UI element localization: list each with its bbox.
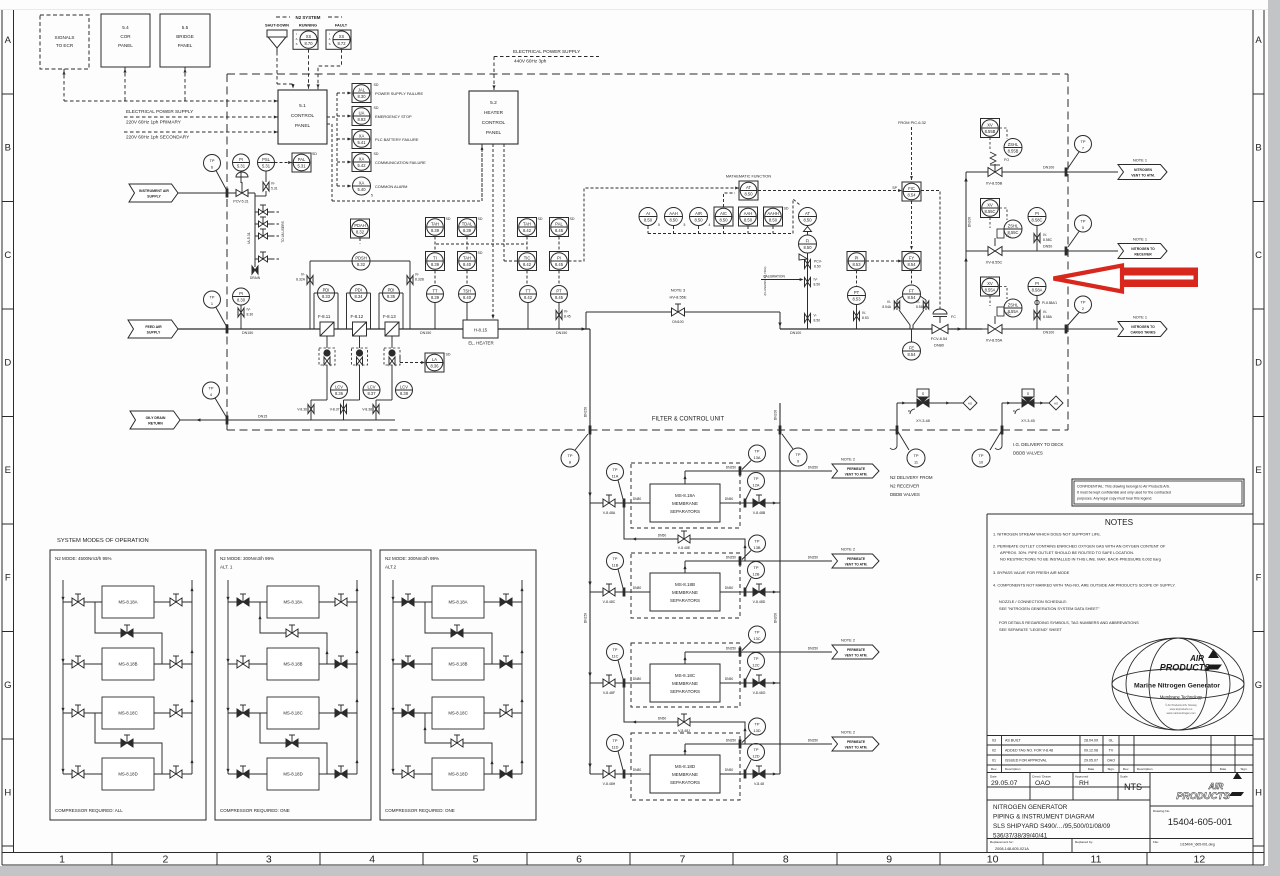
alarm PAL 5.31 (292, 153, 311, 172)
svg-text:V-8.48D: V-8.48D (753, 600, 766, 604)
test point TP12C (748, 653, 765, 670)
svg-text:TT: TT (525, 289, 531, 294)
svg-text:28.04.09: 28.04.09 (1084, 739, 1098, 743)
svg-text:5.31: 5.31 (237, 164, 246, 169)
svg-text:VENT TO ATM.: VENT TO ATM. (845, 473, 868, 477)
separator MS-8.18D (650, 755, 720, 793)
svg-text:NOZZLE / CONNECTION SCHEDULE:: NOZZLE / CONNECTION SCHEDULE: (999, 599, 1067, 604)
svg-text:NITROGEN: NITROGEN (1134, 168, 1152, 172)
svg-text:Scale: Scale (1120, 775, 1128, 779)
membrane group MS-8.18D dashed box (631, 733, 740, 800)
svg-text:3: 3 (266, 854, 272, 866)
svg-text:MS-8.18A: MS-8.18A (283, 600, 302, 605)
svg-text:FE: FE (909, 346, 915, 351)
svg-text:N2 MODE: 300Nm3/h 99%: N2 MODE: 300Nm3/h 99% (385, 556, 439, 561)
svg-text:File:: File: (1153, 840, 1159, 844)
svg-text:DN250: DN250 (808, 556, 818, 560)
mode row MS-8.18C (228, 712, 267, 714)
svg-text:PT: PT (854, 290, 860, 295)
wire bypass V-8.48E (624, 503, 745, 561)
svg-text:Sign.: Sign. (1240, 767, 1247, 771)
zone row dividers (2, 93, 14, 95)
frame border lines (1, 10, 3, 865)
svg-text:8.50: 8.50 (804, 245, 813, 250)
svg-text:DN50: DN50 (1043, 245, 1052, 249)
svg-text:Replaced by:: Replaced by: (1075, 840, 1093, 844)
valve XY-3.48 assembly (897, 402, 963, 404)
svg-text:MS-8.18A: MS-8.18A (675, 493, 695, 498)
svg-text:© Air Products A/S, Norway: © Air Products A/S, Norway (1165, 703, 1197, 707)
svg-text:XA: XA (359, 181, 365, 186)
svg-text:V-8.48G: V-8.48G (753, 691, 766, 695)
svg-text:2: 2 (162, 854, 168, 866)
svg-text:8.42: 8.42 (523, 262, 532, 267)
valve FCV-8.54 with FC actuator (933, 309, 947, 314)
svg-text:SD: SD (784, 207, 789, 211)
svg-text:DBDB VALVES: DBDB VALVES (890, 492, 920, 497)
svg-text:PAL: PAL (298, 157, 306, 162)
boundary dashed box air products scope (227, 73, 1068, 75)
instrument PI 8.45 (550, 252, 569, 271)
svg-text:8.55C: 8.55C (1008, 230, 1019, 235)
svg-text:8.50: 8.50 (814, 265, 821, 269)
svg-text:F-8.11: F-8.11 (318, 314, 331, 319)
instrument PT 8.53 (856, 271, 858, 287)
svg-text:TP: TP (755, 630, 760, 635)
svg-text:DN50: DN50 (725, 586, 734, 590)
svg-text:13A: 13A (754, 455, 761, 460)
svg-text:SHUT-DOWN: SHUT-DOWN (265, 23, 289, 28)
svg-text:ZSHL: ZSHL (1008, 224, 1019, 229)
svg-text:VENT TO ATM.: VENT TO ATM. (845, 746, 868, 750)
svg-text:V-8.48: V-8.48 (754, 782, 764, 786)
svg-text:PI: PI (1035, 281, 1039, 286)
svg-text:8.54: 8.54 (908, 352, 917, 357)
mode cross connection A-B (95, 602, 162, 664)
svg-text:8.54A: 8.54A (882, 305, 891, 309)
filter F-8.13 drain trap (391, 336, 393, 348)
svg-text:8.36: 8.36 (431, 364, 440, 369)
flag INSTRUMENT AIR SUPPLY (129, 184, 178, 202)
svg-text:8.72: 8.72 (338, 41, 347, 46)
svg-text:Date: Date (1220, 767, 1227, 771)
svg-text:DN250: DN250 (726, 739, 736, 743)
svg-text:NITROGEN TO: NITROGEN TO (1131, 247, 1155, 251)
svg-text:DN15: DN15 (258, 415, 267, 419)
instrument AI 8.50 (639, 208, 657, 226)
test point TP13D (749, 718, 766, 735)
svg-text:HEATER: HEATER (484, 110, 504, 116)
title block bottom row (987, 838, 1253, 840)
svg-text:ZSHL: ZSHL (1008, 142, 1019, 147)
mode box at x=215 (215, 550, 371, 820)
svg-text:IA-5.31: IA-5.31 (247, 232, 251, 244)
svg-text:01: 01 (992, 759, 996, 763)
svg-text:ZSHL: ZSHL (1008, 303, 1019, 308)
svg-text:DN250: DN250 (808, 647, 818, 651)
svg-text:03: 03 (992, 739, 996, 743)
mode cross connection C-D (95, 713, 162, 774)
svg-text:OAO: OAO (1107, 759, 1115, 763)
valve LCV 8.38 (396, 382, 413, 399)
wire instrument air line (178, 192, 236, 194)
svg-text:SEPARATORS: SEPARATORS (670, 509, 700, 514)
svg-text:11B: 11B (612, 562, 619, 567)
wire feed branch B (590, 591, 650, 593)
svg-text:DRAIN: DRAIN (250, 276, 261, 280)
svg-text:F: F (1256, 573, 1262, 584)
wire FIC to FCV dashed (921, 191, 940, 310)
svg-text:DN250: DN250 (726, 466, 736, 470)
instrument PSL 5.31 (258, 154, 275, 171)
svg-text:PI: PI (557, 256, 561, 261)
valve IV-8.58C (1036, 226, 1038, 252)
instrument AAH 8.50 square (739, 207, 758, 226)
branch nitrogen to receiver line (966, 250, 1118, 252)
svg-text:8.53: 8.53 (862, 316, 869, 320)
wire permeate line D (684, 744, 686, 755)
svg-text:12: 12 (1194, 854, 1206, 866)
svg-text:8.30: 8.30 (358, 94, 367, 99)
svg-text:8.30: 8.30 (247, 313, 254, 317)
mode box at x=380 (380, 550, 536, 820)
svg-text:A: A (329, 37, 331, 41)
valve IV-8.32B (407, 276, 413, 285)
svg-text:8.34: 8.34 (355, 294, 364, 299)
svg-text:8.50: 8.50 (804, 218, 813, 223)
svg-text:ELECTRICAL POWER SUPPLY: ELECTRICAL POWER SUPPLY (126, 109, 194, 114)
instrument TSH 8.40 (459, 286, 476, 303)
svg-text:8.58C: 8.58C (1032, 218, 1043, 223)
svg-text:V-8.48B: V-8.48B (753, 511, 766, 515)
instrument PI 8.58C (1028, 208, 1046, 226)
page edge gray strip right (1268, 0, 1280, 876)
wire FIC to FY dashed (911, 201, 913, 251)
svg-text:VENT TO ATM.: VENT TO ATM. (845, 654, 868, 658)
logo globe Air Products (1112, 638, 1244, 730)
svg-text:H-8.15: H-8.15 (474, 328, 488, 333)
svg-text:PI: PI (1035, 211, 1039, 216)
svg-text:GL: GL (1109, 739, 1114, 743)
svg-text:8.32: 8.32 (357, 262, 366, 267)
separator MS-8.18C (650, 664, 720, 702)
svg-text:11A: 11A (612, 473, 619, 478)
svg-text:8.50: 8.50 (644, 218, 653, 223)
svg-text:220V 60Hz 1ph SECONDARY: 220V 60Hz 1ph SECONDARY (126, 135, 190, 140)
svg-text:FAULT: FAULT (335, 23, 348, 28)
wire feed air main line (178, 328, 465, 330)
svg-text:EL. HEATER: EL. HEATER (468, 341, 493, 346)
svg-text:S: S (296, 42, 298, 46)
svg-text:SP: SP (892, 186, 897, 190)
svg-text:MS-8.18A: MS-8.18A (448, 600, 467, 605)
svg-text:TI: TI (433, 256, 437, 261)
svg-text:3. BYPASS VALVE FOR FRESH AIR: 3. BYPASS VALVE FOR FRESH AIR MODE (993, 570, 1070, 575)
svg-text:ALT. 1: ALT. 1 (220, 565, 233, 570)
svg-text:H: H (1255, 788, 1262, 799)
svg-text:COMMON ALARM: COMMON ALARM (375, 184, 407, 189)
svg-text:www.airproducts.no: www.airproducts.no (1170, 707, 1193, 711)
svg-text:E: E (1255, 465, 1261, 476)
wire XY-3.48 to header (896, 403, 898, 430)
funnel shut-down symbol (267, 30, 287, 37)
wire product riser to branches (965, 172, 967, 329)
svg-text:IV-: IV- (415, 273, 419, 277)
svg-text:N2 MODE: 4500Nm3/h 95%: N2 MODE: 4500Nm3/h 95% (55, 556, 112, 561)
svg-text:DN150: DN150 (584, 407, 588, 417)
wire permeate line B (684, 561, 686, 573)
svg-text:AIR: AIR (695, 211, 702, 216)
svg-text:MS-8.18D: MS-8.18D (675, 764, 696, 769)
branch nitrogen vent to atm line (966, 171, 1118, 173)
wire membrane product riser DN100 (779, 403, 781, 774)
wire PSL 5.31 tap (265, 171, 267, 182)
separator MS-8.18A (650, 484, 720, 522)
svg-text:Drawing No.: Drawing No. (1153, 809, 1170, 813)
svg-text:NOTE 1: NOTE 1 (1133, 315, 1147, 320)
wire 220V secondary dashed (124, 131, 278, 133)
svg-text:SD: SD (446, 353, 451, 357)
svg-text:COMPRESSOR REQUIRED: ONE: COMPRESSOR REQUIRED: ONE (220, 808, 290, 813)
svg-text:IV-: IV- (301, 273, 305, 277)
svg-text:8.45: 8.45 (555, 228, 564, 233)
svg-text:IV-: IV- (887, 300, 891, 304)
wire instrument taps to feed line (434, 303, 436, 330)
svg-text:FIC: FIC (908, 186, 915, 191)
regulator PCV-5.31 (236, 190, 248, 197)
test point TP8 (561, 449, 579, 467)
svg-text:8.50: 8.50 (814, 283, 821, 287)
mode row MS-8.18A (63, 601, 102, 603)
svg-text:ELECTRICAL POWER SUPPLY: ELECTRICAL POWER SUPPLY (513, 49, 581, 54)
hook and TP11 (890, 430, 897, 449)
confidential legend box (1072, 479, 1244, 506)
branch nitrogen to cargo tanks line (982, 328, 1118, 330)
valve V-8.48H (603, 770, 615, 778)
svg-text:UA: UA (359, 111, 365, 116)
mode cross connection C-D (425, 713, 492, 774)
test point TP7 (1075, 136, 1092, 153)
svg-text:DN80: DN80 (633, 677, 642, 681)
wire product branch D (720, 773, 780, 775)
valve HV-8.55E (672, 308, 685, 316)
svg-text:8.54: 8.54 (908, 193, 917, 198)
svg-text:MS-8.18D: MS-8.18D (118, 772, 137, 777)
svg-text:TDAL: TDAL (462, 222, 473, 227)
valve PI-8.58A/1 (1036, 296, 1038, 330)
valve V-8.38 (373, 405, 379, 414)
svg-text:8.40: 8.40 (463, 262, 472, 267)
svg-text:8.55A: 8.55A (1008, 309, 1019, 314)
wire PI 8.45 to math AT dashed (569, 188, 740, 261)
svg-text:MS-8.18B: MS-8.18B (118, 662, 137, 667)
svg-text:OILY DRAIN: OILY DRAIN (146, 416, 166, 420)
svg-text:DN250: DN250 (726, 556, 736, 560)
svg-text:10: 10 (987, 854, 999, 866)
svg-text:VENT TO ATM.: VENT TO ATM. (845, 563, 868, 567)
svg-text:XV: XV (987, 123, 993, 128)
svg-text:TO I/A USERS: TO I/A USERS (281, 220, 285, 242)
svg-text:8.39: 8.39 (431, 295, 440, 300)
svg-text:D: D (4, 358, 11, 369)
svg-text:SEPARATORS: SEPARATORS (670, 689, 700, 694)
filter F-8.13 assembly (378, 293, 380, 329)
svg-text:POWER SUPPLY FAILURE: POWER SUPPLY FAILURE (375, 91, 423, 96)
wire temperature alarm bus dashed (436, 243, 527, 245)
svg-text:PRODUCTS: PRODUCTS (1176, 791, 1230, 802)
svg-text:AI: AI (646, 211, 650, 216)
svg-text:DN100: DN100 (1043, 166, 1054, 170)
svg-text:11: 11 (1091, 854, 1102, 866)
svg-text:PAL: PAL (555, 222, 563, 227)
svg-text:TP: TP (754, 747, 759, 752)
svg-text:C: C (4, 250, 11, 261)
svg-text:9: 9 (797, 458, 799, 463)
svg-text:8.50: 8.50 (814, 319, 821, 323)
svg-text:8.50: 8.50 (720, 218, 729, 223)
svg-text:PDI: PDI (388, 288, 395, 293)
svg-text:SEPARATORS: SEPARATORS (670, 598, 700, 603)
svg-text:purposes. Any legal copy must: purposes. Any legal copy must bear this … (1077, 497, 1152, 501)
svg-text:PSL: PSL (262, 157, 270, 162)
svg-text:JAL: JAL (358, 88, 366, 93)
svg-text:8.54: 8.54 (908, 295, 917, 300)
instrument ZSHL 8.55C (1004, 220, 1022, 238)
svg-text:CONTROL: CONTROL (291, 113, 315, 119)
svg-text:MS-8.18D: MS-8.18D (448, 772, 467, 777)
svg-text:6: 6 (576, 854, 582, 866)
svg-text:DN50: DN50 (658, 717, 667, 721)
svg-text:11: 11 (914, 459, 918, 464)
svg-text:5: 5 (658, 223, 660, 227)
svg-text:SD: SD (374, 83, 379, 87)
test point TP11D (607, 735, 624, 752)
wire feed branch A (590, 502, 650, 504)
svg-text:PERMEATE: PERMEATE (847, 557, 866, 561)
test point TP11A (607, 464, 624, 481)
svg-text:APPROX. 30%. PIPE OUTLET SHOUL: APPROX. 30%. PIPE OUTLET SHOULD BE ROUTE… (1000, 550, 1134, 555)
svg-text:N2 SYSTEM: N2 SYSTEM (296, 15, 321, 20)
svg-text:8: 8 (783, 854, 789, 866)
svg-text:8.45: 8.45 (555, 262, 564, 267)
svg-text:DN250: DN250 (808, 466, 818, 470)
svg-text:8.40: 8.40 (463, 295, 472, 300)
IA branch valves to users (255, 211, 272, 213)
svg-text:PDI: PDI (323, 288, 330, 293)
svg-text:COR: COR (120, 34, 131, 39)
wire XS 8.70 to control panel dashed (308, 49, 310, 90)
svg-text:A: A (1255, 35, 1262, 46)
svg-text:TSH: TSH (463, 289, 471, 294)
svg-text:SEPARATORS: SEPARATORS (670, 780, 700, 785)
wire bypass V-8.48J (624, 683, 745, 744)
svg-text:29.05.07: 29.05.07 (991, 780, 1018, 787)
svg-text:SYSTEM MODES OF OPERATION: SYSTEM MODES OF OPERATION (57, 538, 149, 544)
svg-text:Membrane Technology: Membrane Technology (1160, 695, 1203, 700)
svg-text:Description: Description (1005, 767, 1021, 771)
svg-text:ADDED TAG NO. FOR V-8.48: ADDED TAG NO. FOR V-8.48 (1005, 749, 1053, 753)
svg-text:XV: XV (987, 281, 993, 286)
test point TP13A (749, 445, 766, 462)
instrument AIC 8.50 (714, 207, 733, 226)
svg-text:SD: SD (570, 217, 575, 221)
wire PDI header (310, 260, 352, 262)
svg-text:F-8.12: F-8.12 (351, 314, 364, 319)
svg-text:XY-3.45: XY-3.45 (1021, 418, 1035, 423)
mode row MS-8.18D (63, 773, 102, 775)
svg-text:LCV: LCV (400, 385, 408, 390)
svg-text:5.42: 5.42 (358, 163, 367, 168)
mode row MS-8.18B (63, 663, 102, 665)
svg-text:TP: TP (1081, 139, 1086, 144)
svg-text:NOTES: NOTES (1105, 518, 1134, 527)
test point TP6 (204, 155, 221, 172)
svg-text:PERMEATE: PERMEATE (847, 648, 866, 652)
mode row MS-8.18C (63, 712, 102, 714)
svg-text:LCV: LCV (368, 385, 376, 390)
svg-text:PDI: PDI (355, 288, 362, 293)
valve IV-8.50 (805, 278, 811, 287)
svg-text:DN250: DN250 (726, 647, 736, 651)
test point TP13C (749, 626, 766, 643)
panel 5.5 BRIDGE PANEL (160, 14, 210, 67)
svg-text:ISSUED FOR APPROVAL: ISSUED FOR APPROVAL (1005, 759, 1047, 763)
wire product line from membranes (780, 328, 932, 330)
svg-text:Sign.: Sign. (1107, 767, 1114, 771)
valve LCV 8.36 (331, 382, 348, 399)
mode box headers and verticals (227, 580, 229, 774)
svg-text:(FLUSHING 1/1 NOx): (FLUSHING 1/1 NOx) (763, 266, 767, 295)
valve IV-8.58A (1034, 311, 1040, 320)
svg-text:8.93: 8.93 (358, 117, 367, 122)
svg-text:8.55A: 8.55A (985, 288, 996, 293)
svg-text:RH: RH (1079, 780, 1089, 787)
svg-text:V-8.48H: V-8.48H (603, 782, 616, 786)
svg-text:5: 5 (473, 854, 479, 866)
instrument PAL 8.45 SD (550, 218, 569, 237)
instrument PDSH 8.32 (352, 252, 370, 270)
svg-text:5.41: 5.41 (358, 140, 367, 145)
svg-text:DN50: DN50 (725, 497, 734, 501)
wire PI 5.31 tap (240, 171, 242, 183)
svg-text:SEE SEPARATE "LEGEND" SHEET: SEE SEPARATE "LEGEND" SHEET (999, 627, 1063, 632)
svg-text:1\15404\_\605-001.dwg: 1\15404\_\605-001.dwg (1180, 843, 1215, 847)
svg-text:EMERGENCY STOP: EMERGENCY STOP (375, 114, 412, 119)
svg-text:FY: FY (909, 256, 915, 261)
svg-text:COMPRESSOR REQUIRED: ALL: COMPRESSOR REQUIRED: ALL (55, 808, 123, 813)
instrument TDAL 8.39 SD (458, 218, 477, 237)
svg-text:DBDB VALVES: DBDB VALVES (1013, 451, 1043, 456)
svg-text:Approved: Approved (1075, 775, 1089, 779)
svg-text:12A: 12A (753, 482, 760, 487)
valve IV-8.53 (856, 305, 858, 330)
svg-text:440V 60Hz 3ph: 440V 60Hz 3ph (514, 59, 547, 64)
svg-text:DN150: DN150 (584, 613, 588, 623)
test point TP9 (789, 448, 807, 466)
valve V-8.48D (753, 588, 765, 596)
svg-text:TP: TP (209, 386, 214, 391)
svg-text:TP: TP (796, 452, 801, 457)
svg-text:V-8.48J: V-8.48J (678, 729, 690, 733)
svg-text:IV-: IV- (564, 310, 568, 314)
svg-text:V-8.48A: V-8.48A (603, 511, 616, 515)
valve IV-5.31 (263, 182, 269, 191)
svg-text:IV-: IV- (1043, 310, 1047, 314)
instrument TAH 8.40 SD (458, 252, 477, 271)
svg-text:5.31: 5.31 (262, 164, 271, 169)
membrane group MS-8.18B dashed box (631, 553, 740, 618)
svg-text:XV-8.55C: XV-8.55C (986, 260, 1003, 265)
